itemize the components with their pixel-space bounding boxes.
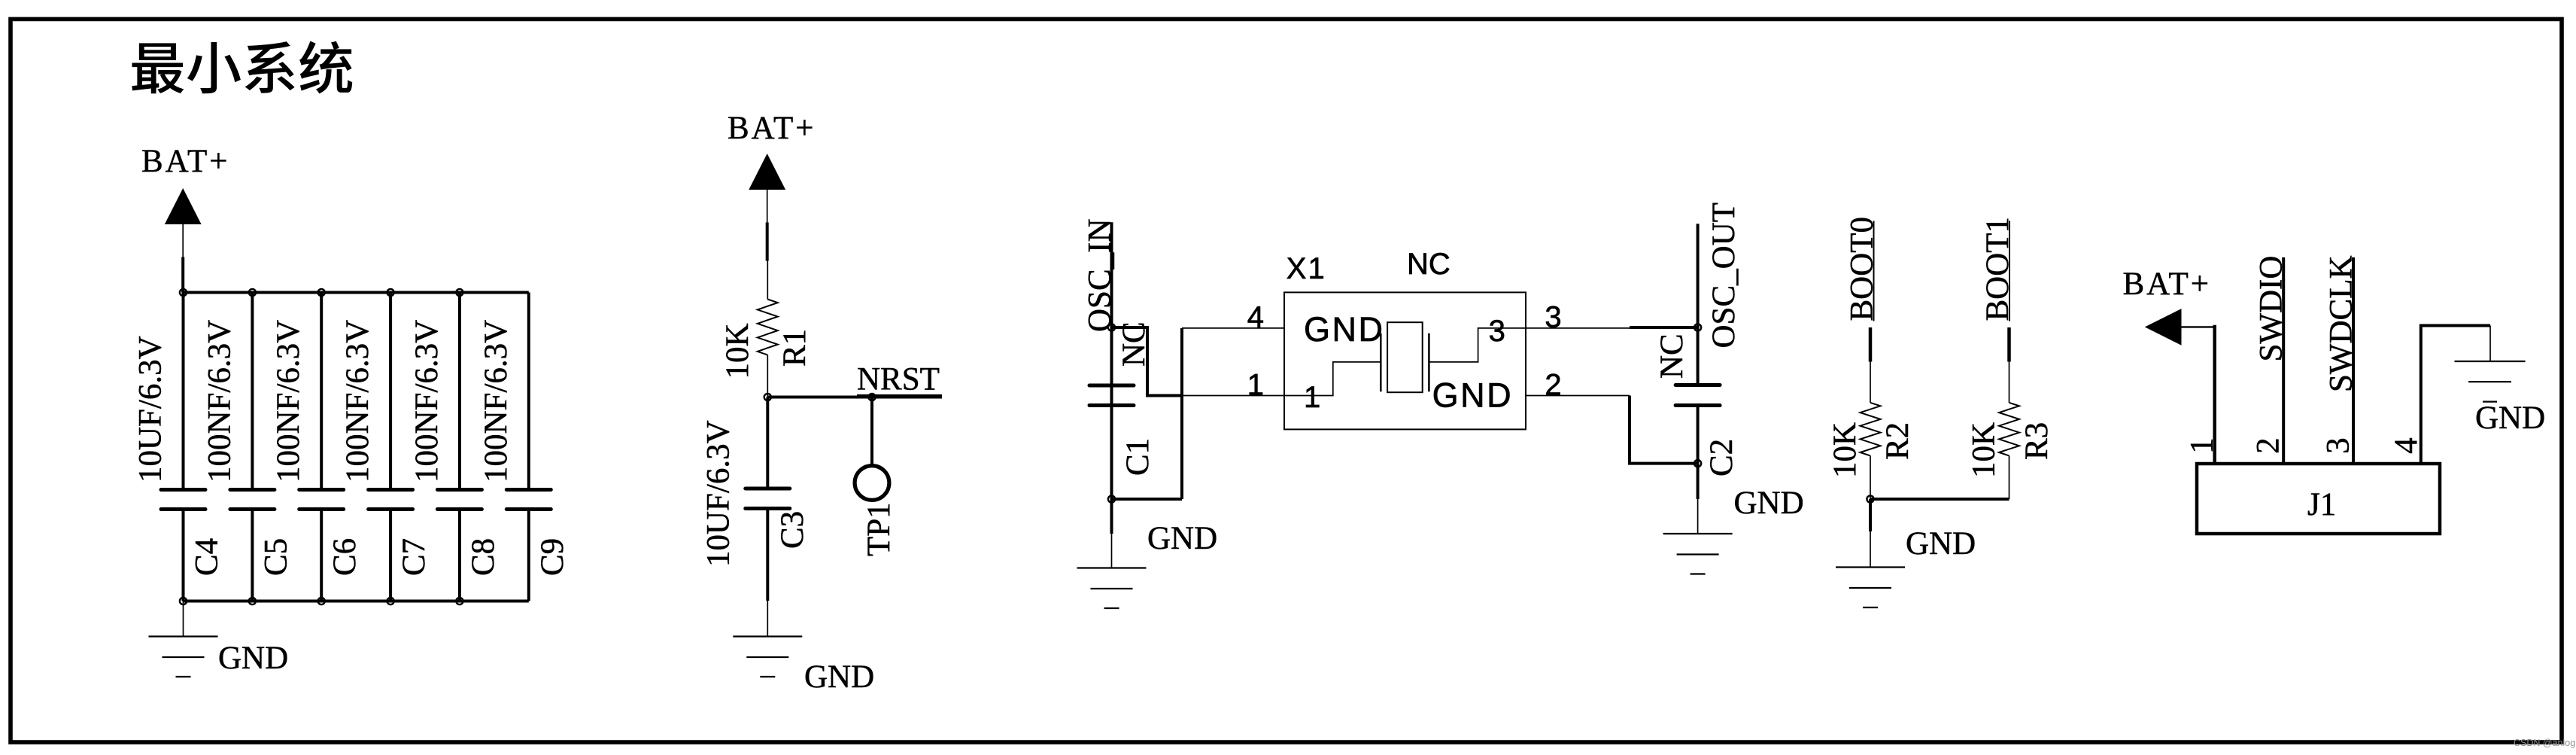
pin of GND symbol section 4 xyxy=(1870,531,1871,567)
pin R1 top xyxy=(767,261,768,300)
svg-text:1: 1 xyxy=(1304,381,1320,414)
capacitor C3 plates xyxy=(746,489,790,509)
svg-text:CSDN @anlog: CSDN @anlog xyxy=(2514,738,2575,748)
svg-text:GND: GND xyxy=(1304,310,1385,349)
capacitor C6 plates xyxy=(299,490,344,510)
svg-text:10UF/6.3V: 10UF/6.3V xyxy=(133,336,169,483)
junction node top bus 3 xyxy=(318,289,325,296)
test point TP1 circle xyxy=(855,466,889,501)
capacitor C8 plates xyxy=(437,490,481,510)
wire C1 gnd stem xyxy=(1110,499,1113,534)
title text 最小系统 xyxy=(132,41,352,94)
wire C1 bottom xyxy=(1110,407,1113,499)
svg-text:3: 3 xyxy=(1489,315,1505,348)
wire R2/R3 bottoms joined xyxy=(1870,498,2009,501)
svg-text:C3: C3 xyxy=(775,511,810,549)
svg-text:C4: C4 xyxy=(190,538,225,576)
wire C2 gnd stem xyxy=(1697,464,1700,499)
capacitor C5 plates xyxy=(230,490,275,510)
power symbol GND (section 3 left) xyxy=(1077,568,1147,609)
svg-text:100NF/6.3V: 100NF/6.3V xyxy=(202,320,237,483)
junction node top bus 4 xyxy=(387,289,394,296)
svg-text:C9: C9 xyxy=(535,538,570,576)
junction node top bus 1 xyxy=(180,289,187,296)
svg-text:BAT+: BAT+ xyxy=(141,144,229,179)
svg-text:100NF/6.3V: 100NF/6.3V xyxy=(409,320,445,483)
wire down to J1 pin 1 xyxy=(2213,325,2216,464)
pin of BAT+ arrow xyxy=(2182,326,2215,327)
svg-text:OSC_OUT: OSC_OUT xyxy=(1706,202,1742,349)
wire pin3 to OSC_OUT node xyxy=(1630,326,1698,329)
svg-text:100NF/6.3V: 100NF/6.3V xyxy=(478,320,514,483)
svg-text:C7: C7 xyxy=(396,538,432,576)
svg-text:2: 2 xyxy=(2251,437,2286,454)
svg-text:4: 4 xyxy=(1247,301,1264,334)
junction node TP1 tap xyxy=(868,394,875,400)
pin 1 line xyxy=(1182,395,1284,397)
wire node to C3 xyxy=(766,397,769,489)
wire NRST net xyxy=(767,396,942,399)
junction node C1 bottom/GND xyxy=(1108,495,1115,502)
svg-text:R2: R2 xyxy=(1880,422,1915,460)
svg-text:C2: C2 xyxy=(1704,439,1739,476)
svg-text:100NF/6.3V: 100NF/6.3V xyxy=(271,320,306,483)
power symbol GND (section 2) xyxy=(733,637,802,677)
svg-text:4: 4 xyxy=(2389,437,2424,454)
power symbol GND (section 3 right) xyxy=(1663,534,1733,574)
svg-text:10K: 10K xyxy=(1827,422,1863,478)
capacitor C8 xyxy=(409,293,501,601)
svg-text:10K: 10K xyxy=(720,323,755,379)
junction node bottom bus 4 xyxy=(387,598,394,604)
pin of GND symbol section 3 left xyxy=(1111,534,1113,568)
wire step node to crystal pin 1 xyxy=(1112,327,1183,396)
svg-text:GND: GND xyxy=(1432,376,1514,415)
svg-text:J1: J1 xyxy=(2307,487,2336,522)
power symbol BAT+ arrow, section 1 (up arrow) xyxy=(165,188,202,224)
underline of BOOT1 label xyxy=(2009,221,2010,321)
pin of BAT+ symbol 2 xyxy=(767,190,768,223)
junction node OSC_IN/pin1 xyxy=(1108,324,1115,330)
internal lead pin 1 to plate xyxy=(1284,362,1381,396)
pin of GND symbol J1 xyxy=(2489,326,2491,362)
wire C3 to GND xyxy=(766,510,769,601)
resistor R1 body (zigzag) xyxy=(758,300,778,355)
svg-text:GND: GND xyxy=(1906,526,1976,562)
svg-text:R1: R1 xyxy=(777,329,813,367)
junction node bottom bus 3 xyxy=(318,598,325,604)
pin of BAT+ symbol xyxy=(182,224,184,257)
wire J1 pin 4 to GND xyxy=(2421,326,2490,464)
pin R2 bottom xyxy=(1870,455,1871,499)
wire pin 2 step down to C2 bottom xyxy=(1630,396,1698,464)
crystal left plate xyxy=(1380,333,1382,392)
pin 2 line xyxy=(1526,395,1630,397)
svg-text:C1: C1 xyxy=(1120,438,1156,476)
junction node bottom bus 5 xyxy=(456,598,463,604)
wire node to GND xyxy=(1869,499,1872,531)
wire to test point TP1 xyxy=(870,397,873,467)
wire OSC_IN vertical xyxy=(1110,222,1113,488)
wire BOOT1 stub xyxy=(2007,327,2011,362)
junction node bottom bus 1 xyxy=(180,598,187,604)
power symbol BAT+ (left arrow) xyxy=(2145,309,2182,346)
junction node top bus 2 xyxy=(249,289,256,296)
pin 4 line xyxy=(1182,327,1284,329)
capacitor C2 plates xyxy=(1675,385,1720,406)
svg-text:10UF/6.3V: 10UF/6.3V xyxy=(701,420,737,567)
wire top bus BAT+ xyxy=(184,291,529,294)
svg-text:2: 2 xyxy=(1545,369,1561,402)
underline of NRST label xyxy=(857,394,942,396)
pin of GND symbol section 3 right xyxy=(1697,499,1699,534)
capacitor C9 xyxy=(478,293,570,601)
svg-text:NRST: NRST xyxy=(857,362,940,397)
pin of GND symbol section 1 xyxy=(183,601,184,637)
resistor R3 body (zigzag) xyxy=(1999,403,2019,456)
power symbol GND (section 1) xyxy=(149,637,218,677)
junction node C2 bottom xyxy=(1694,460,1701,467)
pin R3 top xyxy=(2009,362,2010,403)
underline of BOOT0 label xyxy=(1873,221,1875,321)
wire bottom bus GND xyxy=(184,600,529,603)
wire BAT+ stem xyxy=(181,257,184,292)
capacitor C7 plates xyxy=(369,490,413,510)
svg-text:X1: X1 xyxy=(1286,252,1326,285)
svg-text:BAT+: BAT+ xyxy=(728,111,816,146)
svg-text:10K: 10K xyxy=(1967,422,2002,478)
svg-text:100NF/6.3V: 100NF/6.3V xyxy=(340,320,375,483)
svg-text:3: 3 xyxy=(2320,437,2356,454)
wire OSC_OUT vertical xyxy=(1697,224,1700,383)
svg-text:GND: GND xyxy=(1734,486,1804,521)
wire C1 bottom to pin4 drop xyxy=(1112,498,1183,501)
wire C2 bottom xyxy=(1697,407,1700,464)
svg-text:3: 3 xyxy=(1545,301,1561,334)
svg-text:NC: NC xyxy=(1407,248,1451,281)
svg-text:C8: C8 xyxy=(466,538,501,576)
power symbol GND (J1 section) xyxy=(2455,361,2526,402)
svg-text:1: 1 xyxy=(1247,369,1264,402)
svg-text:TP1: TP1 xyxy=(861,502,897,556)
capacitor C9 plates xyxy=(506,490,551,510)
power symbol BAT+ arrow, section 2 (up arrow) xyxy=(749,154,785,190)
capacitor C5 xyxy=(202,293,293,601)
junction node OSC_OUT/pin3 xyxy=(1694,324,1701,330)
junction node R2 bottom xyxy=(1867,495,1873,502)
svg-text:C6: C6 xyxy=(327,538,363,576)
svg-text:GND: GND xyxy=(218,641,288,676)
capacitor C4 xyxy=(133,293,225,601)
svg-text:C5: C5 xyxy=(258,538,293,576)
power symbol GND (section 4) xyxy=(1836,568,1905,608)
pin R3 bottom xyxy=(2009,455,2010,499)
crystal component X1 outline box xyxy=(1284,292,1526,429)
wire BAT+ to R1 xyxy=(766,223,769,261)
wire SWDCLK to J1 pin 3 xyxy=(2352,257,2355,464)
svg-text:BAT+: BAT+ xyxy=(2123,266,2211,302)
crystal right plate xyxy=(1428,333,1430,392)
resistor R2 body (zigzag) xyxy=(1861,403,1881,456)
crystal symbol rectangle xyxy=(1387,322,1423,392)
capacitor C4 plates xyxy=(161,490,205,510)
pin 3 line xyxy=(1526,327,1630,329)
junction node R1/C3/NRST xyxy=(764,394,771,400)
wire BOOT0 stub xyxy=(1869,327,1873,362)
connector J1 box xyxy=(2197,464,2440,534)
wire crystal pin 4 to GND xyxy=(1180,328,1183,499)
svg-text:NC: NC xyxy=(1654,333,1690,379)
wire SWDIO to J1 pin 2 xyxy=(2282,257,2285,464)
svg-text:GND: GND xyxy=(1147,521,1217,556)
pin R2 top xyxy=(1870,362,1871,403)
pin of GND symbol section 2 xyxy=(767,601,768,637)
internal lead plate to pin 3 xyxy=(1429,328,1526,362)
svg-text:GND: GND xyxy=(2475,400,2545,436)
junction node top bus 5 xyxy=(456,289,463,296)
svg-text:1: 1 xyxy=(2184,437,2219,454)
capacitor C1 plates xyxy=(1089,385,1134,406)
pin R1 bottom xyxy=(767,355,768,397)
svg-text:GND: GND xyxy=(804,659,874,695)
junction node bottom bus 2 xyxy=(249,598,256,604)
capacitor C7 xyxy=(340,293,432,601)
svg-text:R3: R3 xyxy=(2019,422,2055,460)
capacitor C6 xyxy=(271,293,363,601)
